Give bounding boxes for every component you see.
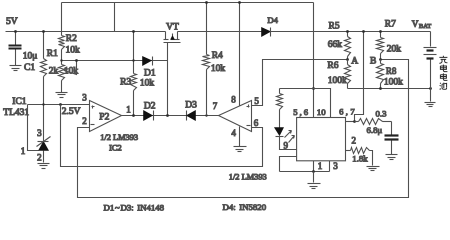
resistor R6 100k	[347, 60, 349, 65]
svg-text:R7: R7	[385, 20, 396, 30]
svg-text:9: 9	[284, 141, 289, 151]
svg-text:R3: R3	[120, 77, 131, 87]
diode D4	[262, 28, 271, 37]
potentiometer RP 10k	[59, 65, 65, 81]
wire P2 inverting input loop to node B	[78, 60, 409, 198]
svg-text:R6: R6	[327, 61, 338, 71]
ground (pot)	[56, 92, 68, 94]
op-amp P2 (1/2 LM393)	[90, 101, 122, 132]
svg-text:1.8k: 1.8k	[352, 154, 368, 164]
wire VT gate lead	[167, 43, 169, 116]
svg-text:BAT: BAT	[419, 23, 431, 30]
resistor R7 20k	[380, 32, 382, 38]
resistor 0.3	[355, 121, 359, 123]
svg-text:1: 1	[318, 161, 323, 171]
op-amp U2b (1/2 LM393 pins 5 6 7)	[219, 101, 252, 132]
wire 5V feed down to charger IC	[313, 3, 315, 118]
svg-text:10k: 10k	[64, 67, 79, 77]
ground (6.8u cap)	[386, 154, 398, 156]
wire VBAT sense column	[355, 32, 364, 122]
resistor R4 10k	[206, 3, 208, 55]
svg-text:B: B	[370, 56, 376, 66]
svg-text:R8: R8	[386, 66, 397, 76]
svg-text:2: 2	[82, 116, 87, 126]
wire top-line to rail tap	[114, 3, 116, 32]
svg-text:D4: D4	[267, 15, 278, 25]
svg-text:100k: 100k	[384, 77, 403, 87]
wire gate drive (pot to D1 to VT gate)	[62, 60, 168, 62]
svg-text:20k: 20k	[387, 44, 402, 54]
resistor (LED series)	[279, 89, 281, 94]
svg-text:10μ: 10μ	[23, 52, 38, 62]
svg-text:1/2 LM393: 1/2 LM393	[100, 133, 138, 142]
diode D1	[143, 57, 152, 66]
svg-text:100k: 100k	[328, 76, 347, 86]
capacitor C1	[15, 32, 17, 45]
svg-text:1: 1	[21, 146, 26, 156]
wire 2.5V to pin 6 loop	[61, 105, 263, 167]
wire pin8 to top line	[239, 3, 241, 106]
diode D2	[144, 111, 153, 121]
svg-text:4: 4	[231, 128, 236, 138]
ground (1.8k)	[367, 166, 380, 168]
svg-text:3: 3	[82, 92, 87, 102]
svg-text:IC2: IC2	[109, 143, 122, 152]
svg-text:10k: 10k	[211, 64, 226, 74]
ground (charger IC)	[308, 183, 321, 185]
svg-text:D2: D2	[144, 102, 156, 112]
svg-text:10k: 10k	[140, 78, 155, 88]
ground (C1)	[10, 65, 22, 67]
svg-text:D3: D3	[185, 101, 197, 111]
ground (battery)	[425, 102, 436, 104]
ground (TL431)	[38, 163, 50, 165]
svg-text:R1: R1	[47, 49, 58, 59]
node A	[346, 58, 349, 61]
node B	[379, 58, 382, 61]
LED indicator	[275, 128, 284, 136]
resistor 1.8k	[346, 150, 351, 152]
svg-text:5V: 5V	[6, 17, 18, 27]
svg-text:2: 2	[37, 152, 42, 162]
wire 5V rail left segment	[6, 31, 166, 33]
battery VBAT (rechargeable)	[430, 32, 432, 47]
svg-text:P2: P2	[99, 113, 109, 123]
label battery chinese text	[439, 56, 447, 64]
svg-text:D1 ~ D3: IN4148: D1 ~ D3: IN4148	[104, 203, 165, 213]
resistor R5 66k	[347, 32, 349, 37]
wire pins 1,3 to ground	[313, 161, 315, 172]
op-amp IC1 TL431	[28, 105, 39, 151]
pot wiper arrow	[65, 61, 77, 75]
wire 2.5V reference node	[28, 104, 90, 106]
svg-text:D1: D1	[144, 68, 156, 78]
resistor R1 2k	[43, 32, 45, 59]
resistor R3 10k	[133, 32, 135, 74]
wire 5V/VBAT rail right segment	[178, 31, 431, 33]
svg-text:VT: VT	[166, 23, 179, 33]
resistor R2 10k	[61, 3, 63, 36]
svg-text:IC1: IC1	[12, 97, 26, 107]
svg-text:66k: 66k	[328, 40, 343, 50]
wire pin4 to ground	[239, 127, 241, 147]
wire top 5V feed line	[62, 2, 314, 4]
capacitor 6.8u	[391, 122, 393, 135]
svg-text:5,6: 5,6	[293, 107, 310, 117]
resistor R8 100k	[380, 60, 382, 64]
svg-text:3: 3	[37, 128, 42, 138]
svg-text:5: 5	[254, 96, 259, 106]
svg-text:TL431: TL431	[3, 108, 29, 118]
svg-text:R2: R2	[66, 34, 77, 44]
ground (pin4)	[234, 146, 247, 148]
wire pin5 to node A	[252, 60, 348, 106]
svg-text:6.8μ: 6.8μ	[367, 125, 383, 135]
svg-text:A: A	[351, 57, 358, 67]
svg-text:R5: R5	[329, 21, 340, 31]
svg-text:C1: C1	[24, 63, 35, 73]
svg-text:2: 2	[352, 135, 357, 145]
LED arrows	[285, 131, 292, 138]
svg-text:1: 1	[126, 105, 131, 115]
wire P2 output / D2 D3 node	[122, 115, 219, 117]
svg-text:V: V	[412, 19, 419, 29]
wire LED/pin10 net	[280, 89, 331, 118]
svg-text:6: 6	[254, 118, 259, 128]
svg-text:7: 7	[213, 101, 218, 111]
charger IC box	[297, 118, 346, 161]
svg-text:8: 8	[231, 94, 236, 104]
svg-text:2.5V: 2.5V	[62, 107, 81, 117]
node dots on 5V rail	[14, 30, 17, 33]
wire battery negative rail	[348, 88, 431, 90]
svg-text:3: 3	[333, 161, 338, 171]
svg-text:R4: R4	[212, 51, 223, 61]
svg-text:10k: 10k	[66, 45, 81, 55]
svg-text:D4: IN5820: D4: IN5820	[223, 202, 267, 212]
svg-text:1/2 LM393: 1/2 LM393	[229, 173, 267, 182]
svg-text:10: 10	[317, 107, 326, 117]
diode D3	[186, 111, 188, 121]
transistor VT (P-MOSFET)	[165, 32, 167, 40]
svg-text:0.3: 0.3	[376, 109, 388, 119]
